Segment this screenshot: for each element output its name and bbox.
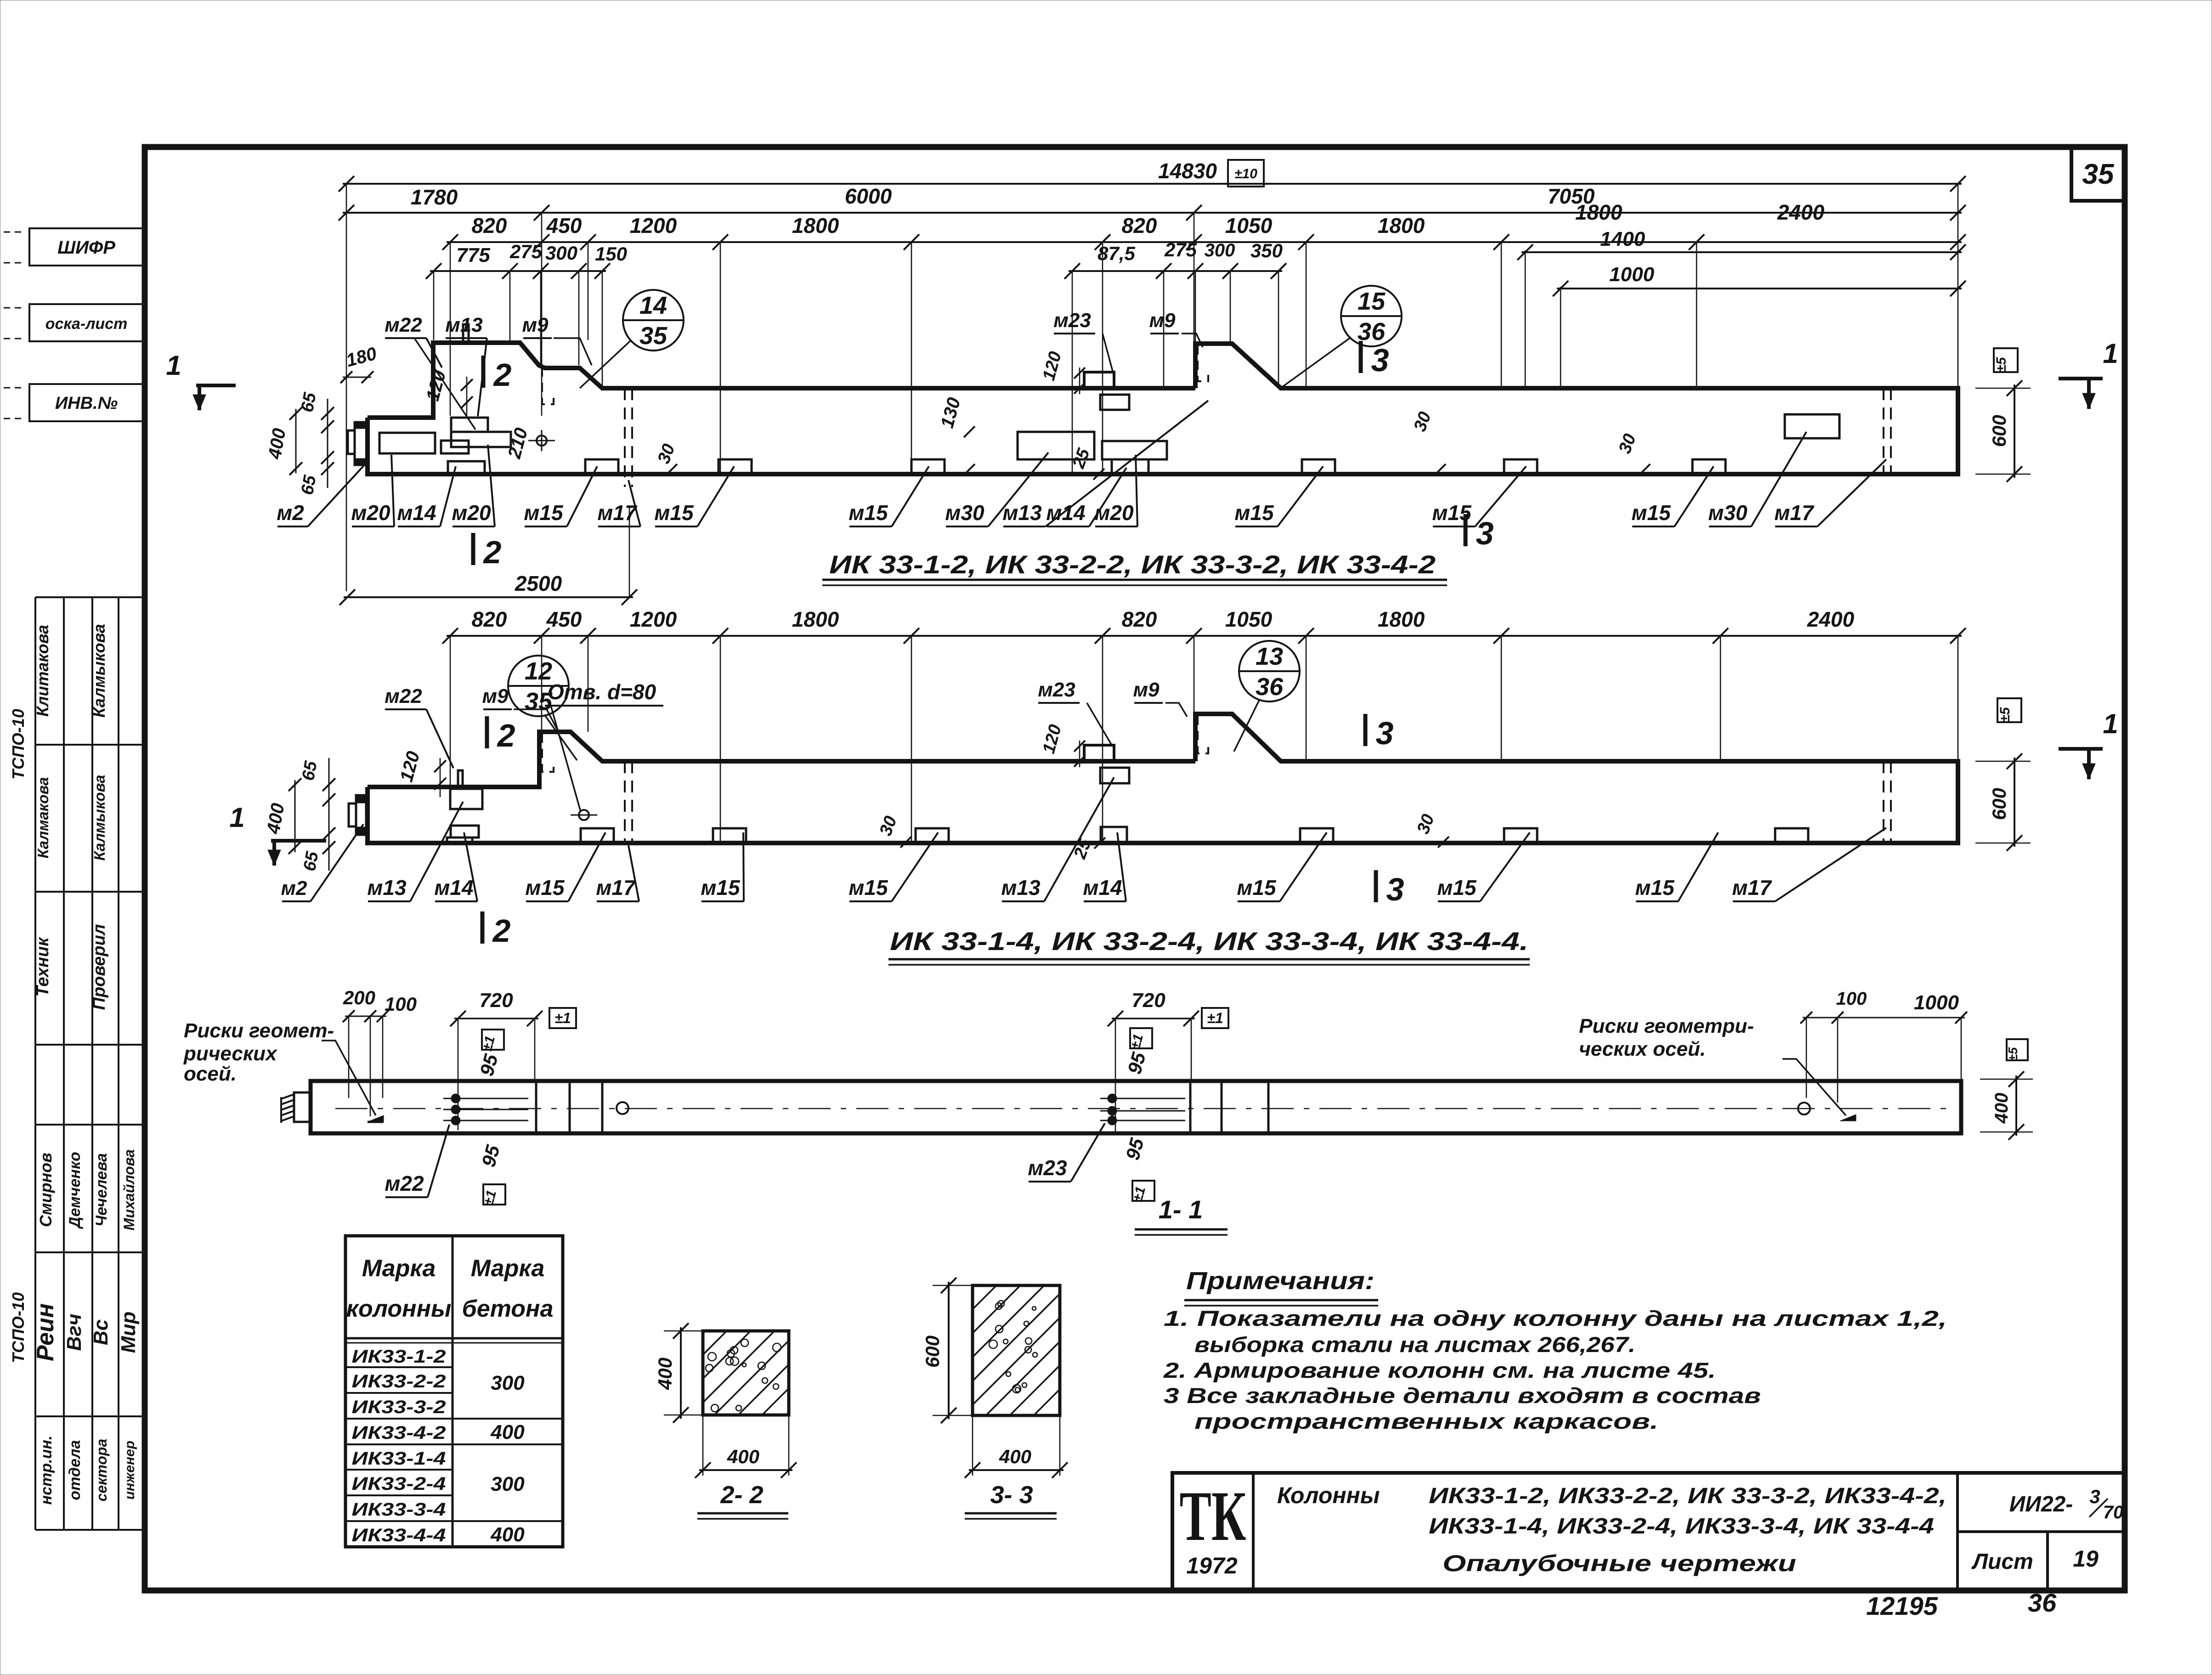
svg-text:2: 2	[483, 534, 502, 570]
svg-text:Чечелева: Чечелева	[93, 1153, 110, 1227]
svg-text:3: 3	[1476, 515, 1494, 551]
svg-text:3 Все закладные детали вхо: 3 Все закладные детали входят в состав	[1164, 1383, 1761, 1408]
svg-text:65: 65	[298, 474, 320, 497]
svg-text:Вс: Вс	[90, 1319, 112, 1345]
svg-text:35: 35	[639, 322, 668, 350]
svg-text:Мир: Мир	[117, 1312, 140, 1353]
svg-text:ческих осей.: ческих осей.	[1579, 1038, 1706, 1060]
svg-text:350: 350	[1250, 240, 1283, 261]
svg-text:13: 13	[1256, 643, 1283, 670]
svg-text:м23: м23	[1038, 679, 1075, 701]
svg-text:отдела: отдела	[66, 1440, 84, 1500]
svg-text:м15: м15	[1437, 876, 1477, 900]
svg-text:65: 65	[300, 850, 322, 873]
svg-text:400: 400	[999, 1446, 1031, 1467]
svg-text:Колонны: Колонны	[1277, 1483, 1380, 1508]
svg-text:ИК33-1-4: ИК33-1-4	[352, 1449, 446, 1469]
svg-text:ИК33-3-4: ИК33-3-4	[352, 1500, 446, 1520]
svg-text:ИНВ.№: ИНВ.№	[55, 394, 118, 413]
svg-text:820: 820	[472, 607, 507, 631]
svg-text:Риски геомет-: Риски геомет-	[184, 1019, 334, 1042]
svg-text:65: 65	[298, 391, 320, 414]
svg-text:ИК33-2-2: ИК33-2-2	[352, 1371, 446, 1392]
svg-text:820: 820	[1122, 607, 1157, 631]
svg-text:м15: м15	[1432, 501, 1472, 525]
svg-text:1050: 1050	[1225, 214, 1273, 238]
svg-text:м13: м13	[445, 314, 483, 336]
svg-text:1000: 1000	[1609, 263, 1654, 286]
svg-text:м15: м15	[1234, 501, 1274, 525]
svg-text:3: 3	[2089, 1486, 2100, 1507]
svg-text:1: 1	[166, 350, 181, 381]
svg-text:600: 600	[922, 1335, 943, 1368]
svg-text:Калмыкова: Калмыкова	[91, 775, 108, 861]
svg-text:ИК33-1-2: ИК33-1-2	[352, 1347, 446, 1367]
svg-text:275: 275	[509, 241, 543, 262]
svg-text:м20: м20	[351, 501, 390, 525]
svg-text:Марка: Марка	[362, 1255, 436, 1282]
svg-text:м14: м14	[1046, 501, 1085, 525]
svg-text:Риски геометри-: Риски геометри-	[1579, 1015, 1754, 1037]
svg-text:Демченко: Демченко	[66, 1152, 84, 1229]
svg-text:1800: 1800	[792, 214, 839, 238]
svg-text:36: 36	[1256, 673, 1284, 701]
svg-text:300: 300	[491, 1473, 525, 1495]
svg-text:15: 15	[1358, 288, 1386, 315]
svg-text:ИК33-1-2, ИК33-2-2, ИК 33-3-2,: ИК33-1-2, ИК33-2-2, ИК 33-3-2, ИК33-4-2,	[1429, 1484, 1946, 1508]
svg-text:рических: рических	[183, 1042, 277, 1065]
svg-text:1972: 1972	[1186, 1553, 1237, 1579]
svg-text:400: 400	[490, 1421, 525, 1443]
svg-text:100: 100	[1836, 989, 1867, 1009]
svg-text:м15: м15	[524, 501, 564, 525]
svg-text:±5: ±5	[1994, 357, 2009, 372]
svg-text:36: 36	[1358, 318, 1386, 345]
svg-text:1: 1	[2103, 338, 2118, 369]
svg-text:ИК33-2-4: ИК33-2-4	[352, 1474, 446, 1494]
svg-text:775: 775	[456, 244, 490, 266]
svg-text:ТСПО-10: ТСПО-10	[9, 709, 28, 780]
svg-text:ИК 33-1-4, ИК 33-2-4, ИК 33-: ИК 33-1-4, ИК 33-2-4, ИК 33-3-4, ИК 33-4…	[890, 927, 1528, 956]
svg-text:±1: ±1	[554, 1010, 571, 1026]
svg-text:ИК 33-1-2, ИК 33-2-2, ИК 33-3: ИК 33-1-2, ИК 33-2-2, ИК 33-3-2, ИК 33-4…	[829, 550, 1436, 579]
svg-text:м14: м14	[397, 501, 436, 525]
svg-text:±1: ±1	[1207, 1010, 1223, 1026]
svg-text:м15: м15	[849, 501, 888, 525]
svg-text:35: 35	[2082, 158, 2115, 190]
svg-text:2: 2	[497, 718, 515, 753]
svg-text:2400: 2400	[1777, 200, 1825, 224]
svg-text:3: 3	[1371, 342, 1389, 378]
svg-text:м30: м30	[945, 501, 984, 525]
svg-text:м20: м20	[452, 501, 491, 525]
svg-text:м15: м15	[701, 876, 741, 900]
svg-text:оска-лист: оска-лист	[45, 315, 128, 333]
svg-text:Марка: Марка	[471, 1255, 545, 1282]
svg-text:ИК33-4-2: ИК33-4-2	[352, 1423, 446, 1443]
svg-text:м23: м23	[1028, 1156, 1067, 1180]
svg-text:м14: м14	[434, 876, 473, 900]
svg-text:Проверил: Проверил	[90, 924, 109, 1010]
svg-text:1. Показатели на одну колон: 1. Показатели на одну колонну даны на ли…	[1164, 1306, 1947, 1330]
svg-text:выборка стали на листах 26: выборка стали на листах 266,267.	[1194, 1332, 1635, 1357]
svg-text:600: 600	[1988, 415, 2010, 447]
svg-text:275: 275	[1164, 239, 1197, 260]
svg-text:65: 65	[299, 759, 321, 782]
svg-text:3- 3: 3- 3	[990, 1481, 1033, 1509]
svg-text:м9: м9	[522, 314, 549, 336]
svg-text:12195: 12195	[1866, 1591, 1938, 1620]
svg-text:36: 36	[2028, 1588, 2057, 1617]
svg-text:14830: 14830	[1158, 159, 1217, 183]
svg-text:ИК33-3-2: ИК33-3-2	[352, 1397, 446, 1417]
svg-text:Калмакова: Калмакова	[34, 777, 51, 858]
svg-text:±5: ±5	[2006, 1047, 2020, 1061]
svg-text:м22: м22	[385, 1171, 424, 1195]
svg-text:400: 400	[654, 1358, 676, 1390]
svg-text:м13: м13	[1002, 501, 1042, 525]
svg-text:пространственных каркасов.: пространственных каркасов.	[1194, 1409, 1658, 1433]
svg-text:ШИФР: ШИФР	[57, 238, 115, 258]
svg-text:м15: м15	[525, 876, 565, 900]
svg-text:±5: ±5	[1997, 707, 2013, 722]
svg-text:3: 3	[1386, 871, 1404, 907]
svg-text:м9: м9	[1149, 309, 1176, 332]
svg-text:2500: 2500	[515, 572, 562, 595]
svg-text:ТК: ТК	[1180, 1477, 1246, 1556]
svg-text:м15: м15	[1635, 876, 1675, 900]
svg-text:м15: м15	[1237, 876, 1277, 900]
svg-text:Техник: Техник	[33, 937, 52, 997]
svg-text:14: 14	[639, 292, 667, 319]
svg-text:м15: м15	[1631, 501, 1671, 525]
svg-text:м17: м17	[1774, 501, 1815, 525]
svg-text:1200: 1200	[630, 214, 677, 238]
svg-text:м22: м22	[385, 314, 422, 336]
svg-text:±10: ±10	[1234, 166, 1257, 181]
svg-text:19: 19	[2073, 1546, 2099, 1572]
svg-text:400: 400	[727, 1446, 759, 1467]
svg-text:Клитакова: Клитакова	[33, 625, 52, 717]
svg-text:м17: м17	[597, 501, 638, 525]
svg-text:1: 1	[229, 802, 244, 833]
svg-text:м23: м23	[1053, 309, 1091, 332]
svg-text:Опалубочные чертежи: Опалубочные чертежи	[1443, 1551, 1796, 1576]
svg-text:2. Армирование колонн см. на: 2. Армирование колонн см. на листе 45.	[1163, 1358, 1716, 1382]
svg-text:2- 2: 2- 2	[720, 1481, 763, 1509]
svg-text:Вгч: Вгч	[63, 1314, 85, 1351]
svg-text:87,5: 87,5	[1098, 243, 1135, 264]
svg-text:200: 200	[343, 987, 375, 1008]
svg-text:м30: м30	[1708, 501, 1748, 525]
svg-text:Реин: Реин	[32, 1303, 59, 1361]
svg-text:6000: 6000	[845, 184, 892, 208]
svg-text:1800: 1800	[792, 607, 839, 631]
svg-text:2: 2	[493, 357, 512, 393]
svg-text:300: 300	[491, 1372, 525, 1394]
svg-text:колонны: колонны	[346, 1296, 452, 1322]
svg-text:м17: м17	[596, 876, 636, 900]
svg-text:100: 100	[385, 993, 417, 1015]
svg-text:1780: 1780	[411, 185, 458, 209]
svg-text:150: 150	[595, 243, 627, 265]
svg-text:бетона: бетона	[462, 1296, 554, 1322]
svg-text:Примечания:: Примечания:	[1186, 1267, 1375, 1295]
svg-text:400: 400	[490, 1523, 525, 1546]
svg-text:м2: м2	[277, 501, 304, 525]
svg-text:Калмыкова: Калмыкова	[90, 624, 108, 718]
svg-text:инженер: инженер	[122, 1441, 137, 1500]
svg-text:720: 720	[479, 989, 513, 1012]
svg-text:Отв. d=80: Отв. d=80	[548, 680, 656, 704]
svg-text:м13: м13	[1001, 876, 1041, 900]
svg-text:м13: м13	[367, 876, 407, 900]
svg-text:820: 820	[472, 214, 507, 238]
svg-text:400: 400	[1991, 1093, 2012, 1124]
svg-text:1400: 1400	[1600, 228, 1645, 250]
svg-text:осей.: осей.	[184, 1063, 237, 1085]
svg-text:820: 820	[1122, 214, 1157, 238]
svg-text:м2: м2	[281, 877, 307, 900]
svg-text:70: 70	[2103, 1502, 2124, 1522]
svg-text:1- 1: 1- 1	[1159, 1195, 1203, 1224]
svg-text:м15: м15	[654, 501, 694, 525]
svg-text:м15: м15	[849, 876, 888, 900]
svg-text:м20: м20	[1094, 501, 1134, 525]
svg-text:м14: м14	[1083, 876, 1122, 900]
svg-text:300: 300	[1205, 240, 1235, 260]
svg-text:450: 450	[546, 607, 582, 631]
svg-text:Смирнов: Смирнов	[36, 1153, 55, 1227]
svg-text:ИК33-1-4, ИК33-2-4, ИК33-3-4,: ИК33-1-4, ИК33-2-4, ИК33-3-4, ИК 33-4-4	[1429, 1514, 1934, 1539]
svg-text:ТСПО-10: ТСПО-10	[9, 1292, 28, 1363]
svg-text:Лист: Лист	[1971, 1550, 2033, 1574]
svg-text:1: 1	[2103, 708, 2118, 739]
svg-text:1800: 1800	[1575, 200, 1623, 224]
svg-text:1000: 1000	[1914, 991, 1959, 1014]
svg-text:600: 600	[1988, 788, 2010, 820]
svg-text:1800: 1800	[1378, 607, 1425, 631]
svg-text:ИИ22-: ИИ22-	[2009, 1492, 2073, 1517]
svg-text:1800: 1800	[1378, 214, 1425, 238]
svg-text:1200: 1200	[630, 607, 677, 631]
svg-text:1050: 1050	[1225, 607, 1273, 631]
svg-text:720: 720	[1131, 989, 1165, 1012]
svg-text:нстр.ин.: нстр.ин.	[38, 1436, 55, 1505]
svg-text:Михайлова: Михайлова	[121, 1149, 137, 1231]
svg-text:сектора: сектора	[93, 1439, 110, 1502]
svg-text:3: 3	[1376, 715, 1394, 751]
svg-text:2: 2	[492, 913, 511, 949]
svg-text:450: 450	[546, 214, 582, 238]
svg-text:ИК33-4-4: ИК33-4-4	[352, 1525, 446, 1545]
svg-text:м22: м22	[385, 685, 422, 707]
svg-text:м9: м9	[482, 685, 509, 707]
svg-text:2400: 2400	[1807, 607, 1855, 631]
svg-text:м17: м17	[1732, 876, 1772, 900]
svg-text:м9: м9	[1133, 679, 1160, 701]
svg-text:300: 300	[545, 242, 577, 264]
